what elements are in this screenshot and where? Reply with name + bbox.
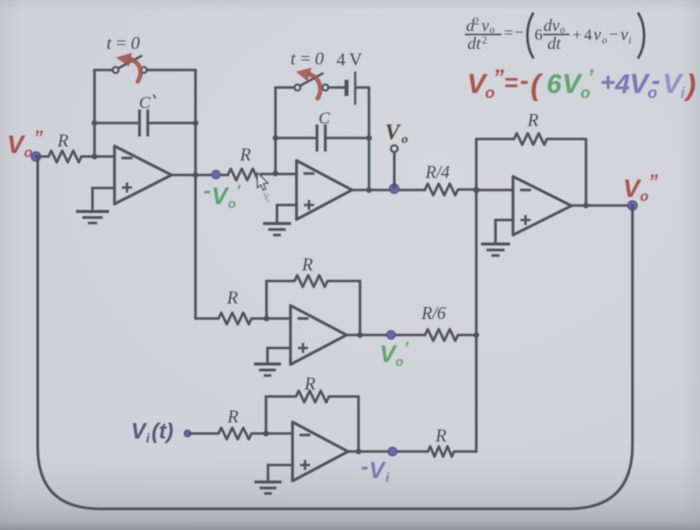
op-amp U4 bbox=[291, 306, 347, 365]
svg-text:V: V bbox=[212, 183, 230, 210]
annotation red arrow on SW1 bbox=[116, 53, 141, 82]
node Vi input (purple dot) bbox=[184, 430, 191, 437]
svg-text:o: o bbox=[402, 131, 409, 146]
svg-text:i: i bbox=[681, 85, 686, 102]
wire SW2 to battery bbox=[328, 86, 344, 89]
wire cap C1 left lead bbox=[95, 122, 139, 125]
svg-text:R: R bbox=[527, 110, 539, 130]
svg-text:-: - bbox=[204, 178, 211, 203]
switch SW2 t=0 bbox=[294, 74, 328, 91]
wire U5 feedback right + down bbox=[329, 397, 359, 452]
equation: handwritten Vo''= -( 6Vo' + 4Vo - Vi ) bbox=[467, 65, 696, 102]
svg-text:C: C bbox=[319, 109, 331, 128]
svg-text:+: + bbox=[573, 27, 582, 44]
label Vo'' (red) bbox=[7, 128, 44, 160]
wire U3 output bbox=[572, 204, 633, 207]
svg-text:R: R bbox=[226, 288, 238, 308]
resistor R9 bbox=[296, 391, 329, 403]
wire U1 output down to U4 bbox=[196, 175, 219, 319]
resistor R2 bbox=[228, 169, 261, 181]
svg-text:t = 0: t = 0 bbox=[107, 33, 140, 53]
wire Vo terminal stub bbox=[393, 152, 396, 188]
svg-text:o: o bbox=[24, 144, 33, 160]
svg-text:4: 4 bbox=[614, 69, 630, 99]
svg-text:=: = bbox=[504, 25, 513, 42]
wire U3 feedback riser up bbox=[475, 139, 478, 190]
wire U4 feedback riser + top bbox=[267, 281, 295, 319]
svg-text:”: ” bbox=[493, 65, 504, 90]
wire battery to right riser bbox=[357, 86, 370, 89]
svg-text:2: 2 bbox=[482, 36, 487, 47]
node Vo'' output (purple dot) bbox=[628, 201, 638, 211]
svg-text:v: v bbox=[594, 25, 602, 44]
junction U5 input node bbox=[263, 431, 269, 437]
switch SW1 t=0 bbox=[113, 56, 147, 73]
label Vo bbox=[385, 119, 409, 146]
wire summing node to U3 inverting input bbox=[476, 189, 513, 192]
ground U1 bbox=[76, 212, 109, 224]
label Vi(t) (indigo) bbox=[131, 419, 173, 446]
wire cap C2 right lead bbox=[326, 137, 369, 140]
wire summing bus down right side bbox=[475, 190, 478, 452]
wire U1 output bbox=[172, 174, 229, 177]
annotation red arrow on SW2 bbox=[296, 68, 320, 99]
svg-text:v: v bbox=[621, 25, 629, 44]
resistor R1 bbox=[49, 151, 82, 163]
op-amp U3 bbox=[513, 177, 572, 236]
op-amp U5 bbox=[293, 422, 349, 481]
svg-text:i: i bbox=[146, 431, 150, 446]
svg-text:−: − bbox=[609, 27, 618, 44]
svg-text:4 V: 4 V bbox=[337, 50, 363, 70]
svg-text:-: - bbox=[520, 65, 529, 95]
svg-text:6: 6 bbox=[547, 69, 563, 99]
svg-text:dt: dt bbox=[548, 34, 563, 53]
svg-text:4: 4 bbox=[584, 27, 592, 44]
svg-text:(t): (t) bbox=[152, 419, 174, 444]
wire SW1 right lead bbox=[147, 69, 196, 72]
svg-text:+: + bbox=[600, 67, 615, 97]
svg-text:R/6: R/6 bbox=[421, 303, 447, 323]
svg-text:R: R bbox=[435, 426, 447, 446]
wire U1 noninverting to ground bbox=[93, 188, 115, 209]
svg-text:V: V bbox=[369, 457, 386, 483]
svg-text:R: R bbox=[239, 145, 251, 165]
svg-text:o: o bbox=[396, 354, 404, 369]
svg-text:t = 0: t = 0 bbox=[291, 49, 324, 69]
junction U5 output node bbox=[356, 449, 362, 455]
junction U2 output node bbox=[366, 187, 372, 193]
wire cap C2 left lead bbox=[276, 137, 317, 140]
wire U3 feedback top left bbox=[476, 138, 514, 141]
wire U3 noninverting to ground bbox=[496, 220, 514, 242]
battery BT1 4V bbox=[347, 72, 356, 105]
svg-text:o: o bbox=[228, 196, 236, 211]
wire R7 to summing bus bbox=[458, 334, 476, 337]
terminal Vo (open circle) bbox=[391, 145, 398, 152]
junction U3 output/feedback bbox=[583, 203, 589, 209]
wire U4 noninverting to ground bbox=[268, 348, 291, 362]
wire U4 feedback right + down bbox=[328, 281, 361, 335]
node -Vi (purple dot) bbox=[388, 447, 397, 456]
ground U5 bbox=[255, 482, 282, 494]
junction cap left bbox=[92, 120, 98, 126]
svg-text:i: i bbox=[386, 470, 390, 485]
svg-text:6: 6 bbox=[535, 27, 543, 44]
label -Vi (purple) bbox=[361, 454, 390, 485]
wire R10 to summing bus bbox=[454, 450, 476, 453]
op-amp U2 bbox=[297, 161, 353, 220]
wire U3 feedback top right + down bbox=[547, 139, 586, 206]
wire cap C1 right lead bbox=[149, 122, 196, 125]
svg-text:V: V bbox=[385, 119, 402, 144]
junction cap right bbox=[193, 120, 199, 126]
ground U3 bbox=[481, 244, 510, 256]
wire U2 left feedback riser bbox=[274, 88, 277, 174]
wire U5 feedback riser + top bbox=[266, 397, 296, 434]
svg-text:R/4: R/4 bbox=[425, 162, 451, 182]
label Vo' (green) bbox=[380, 340, 410, 369]
svg-text:-: - bbox=[361, 454, 368, 479]
wire U2 noninverting to ground bbox=[277, 205, 297, 222]
wire U1 right feedback riser bbox=[194, 70, 197, 175]
label -Vo' (green) bbox=[204, 178, 242, 211]
svg-text:’: ’ bbox=[236, 183, 241, 200]
node Vo'' input (purple dot) bbox=[31, 152, 41, 162]
junction U1 input node bbox=[92, 154, 98, 160]
svg-text:=: = bbox=[504, 70, 518, 97]
label Vo'' output (red) bbox=[623, 172, 659, 204]
resistor R7 (R/6) bbox=[425, 329, 458, 341]
node Vo (purple dot) bbox=[390, 184, 400, 194]
svg-text:C: C bbox=[139, 93, 151, 112]
wire U2 right feedback riser bbox=[368, 88, 371, 191]
op-amp U1 bbox=[115, 146, 172, 204]
ground U2 bbox=[263, 224, 291, 236]
resistor R6 bbox=[295, 275, 328, 287]
wire Vo'' feedback loop bbox=[38, 157, 633, 509]
svg-text:2: 2 bbox=[474, 16, 480, 28]
junction U1 output node bbox=[193, 172, 199, 178]
svg-text:R: R bbox=[301, 255, 313, 275]
capacitor C1 bbox=[140, 110, 148, 137]
svg-text:v: v bbox=[482, 16, 490, 35]
wire R5 to U4 input bbox=[252, 317, 291, 320]
svg-text:”: ” bbox=[34, 128, 44, 149]
ground U4 bbox=[254, 364, 281, 376]
wire R3 to summing node bbox=[458, 188, 476, 191]
wire Vi to R8 bbox=[190, 432, 219, 435]
svg-text:’: ’ bbox=[404, 340, 409, 357]
wire R8 to U5 input bbox=[252, 432, 293, 435]
wire R1 to U1 inverting input bbox=[82, 155, 115, 158]
junction C2 left bbox=[273, 135, 279, 141]
svg-text:−: − bbox=[515, 25, 524, 42]
resistor R5 bbox=[219, 313, 252, 325]
node Vo' (purple dot) bbox=[387, 331, 396, 340]
svg-text:dt: dt bbox=[468, 34, 483, 53]
junction R7 bus bbox=[473, 332, 479, 338]
junction U4 output node bbox=[357, 332, 363, 338]
wire R2 to U2 input bbox=[261, 173, 297, 176]
svg-text:-: - bbox=[652, 65, 661, 95]
wire U5 noninverting to ground bbox=[268, 465, 293, 480]
wire U2 output to R3 bbox=[352, 189, 425, 192]
junction U4 input node bbox=[264, 316, 270, 322]
svg-text:o: o bbox=[602, 36, 607, 47]
svg-text:dv: dv bbox=[544, 16, 561, 35]
svg-text:R: R bbox=[227, 407, 239, 427]
wire U1 left feedback riser bbox=[93, 70, 96, 157]
label C1 value C bbox=[139, 93, 156, 112]
resistor R10 bbox=[428, 446, 454, 456]
junction summing node bbox=[473, 187, 479, 193]
wire Vo-in to R1 bbox=[36, 155, 49, 158]
resistor R8 bbox=[219, 428, 252, 440]
node -Vo' (purple dot) bbox=[212, 170, 221, 179]
wire switch SW1 left lead bbox=[95, 69, 113, 72]
wire U5 output to R10 bbox=[348, 450, 428, 453]
svg-text:”: ” bbox=[649, 172, 659, 193]
svg-text:i: i bbox=[629, 36, 632, 47]
svg-text:R: R bbox=[57, 131, 69, 151]
svg-text:R: R bbox=[304, 374, 316, 394]
junction C2 right bbox=[366, 135, 372, 141]
equation: printed d2vo/dt2 = -(6 dvo/dt + 4vo - vi) bbox=[465, 14, 644, 58]
resistor R3 (R/4) bbox=[425, 184, 458, 196]
mouse cursor bbox=[257, 173, 269, 203]
wire switch SW2 left lead bbox=[276, 86, 295, 89]
junction U2 input node bbox=[273, 171, 279, 177]
resistor R4 bbox=[514, 133, 547, 145]
wire U4 output to R7 bbox=[347, 334, 426, 337]
capacitor C2 bbox=[317, 125, 325, 152]
